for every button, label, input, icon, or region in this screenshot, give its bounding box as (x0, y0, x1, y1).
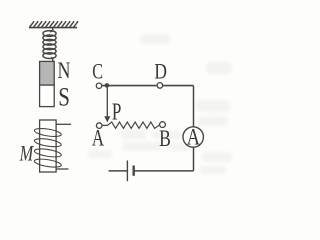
svg-text:C: C (92, 60, 103, 84)
ceiling (29, 21, 78, 27)
wire bottom right battery to corner (134, 170, 194, 172)
terminal C (96, 83, 101, 88)
terminal B (160, 122, 166, 128)
svg-text:A: A (92, 127, 105, 152)
coil M windings (34, 127, 62, 169)
wire right side down (193, 86, 195, 171)
rheostat resistor body (102, 122, 160, 128)
wire top C to corner (99, 85, 194, 87)
svg-text:A: A (187, 123, 201, 150)
battery long plate (126, 160, 128, 181)
label D (154, 60, 167, 85)
label C (92, 60, 103, 84)
coil bottom lead wire (56, 168, 69, 170)
label S (58, 83, 70, 112)
coil top lead wire (56, 123, 71, 125)
wire bottom left battery lead (109, 170, 128, 172)
label A (92, 127, 105, 152)
svg-text:P: P (112, 98, 121, 126)
svg-text:M: M (19, 142, 34, 166)
svg-text:D: D (154, 60, 167, 85)
svg-text:N: N (58, 59, 71, 84)
terminal A (96, 123, 102, 129)
magnet (40, 61, 55, 106)
label B (159, 127, 171, 152)
ammeter A1 (183, 123, 203, 150)
spring (43, 28, 56, 61)
junction dot (105, 83, 110, 88)
terminal D (157, 83, 163, 89)
label N (58, 59, 71, 84)
label P (112, 98, 121, 126)
slider P arrow wire (104, 86, 110, 123)
battery short plate (132, 166, 134, 176)
coil M core (40, 120, 57, 172)
svg-text:S: S (58, 83, 70, 112)
label M (19, 142, 34, 166)
svg-text:B: B (159, 127, 171, 152)
